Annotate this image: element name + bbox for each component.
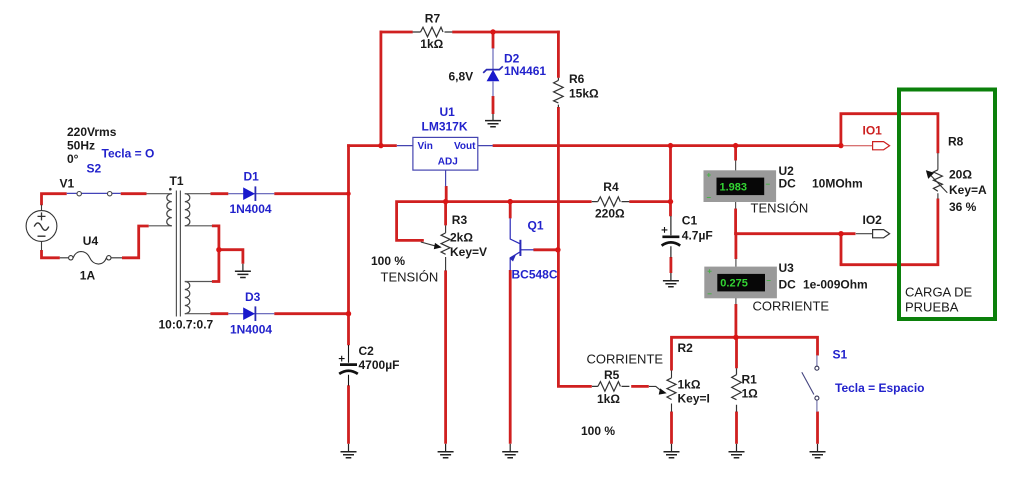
svg-text:BC548C: BC548C [512, 268, 558, 282]
svg-text:100 %: 100 % [581, 424, 615, 438]
voltmeter U2 [704, 160, 777, 209]
wire bottom rail R2 to S1 [672, 337, 818, 370]
svg-text:V1: V1 [60, 177, 75, 191]
node Q1 base / main vertical [555, 247, 560, 252]
label TENSION pot [371, 254, 438, 285]
potentiometer R8 [926, 153, 947, 199]
node Vin rail / R7 [378, 143, 383, 148]
label CARGA DE PRUEBA [905, 285, 973, 315]
wire C1 upper [669, 144, 672, 216]
svg-text:LM317K: LM317K [422, 120, 468, 134]
wire IO1 branch to R8 top [841, 114, 938, 154]
wire D1 to main node [274, 192, 350, 195]
wire IO2 rail [734, 232, 855, 235]
wire D3 input [210, 312, 228, 315]
svg-text:D1: D1 [244, 170, 260, 184]
label S1 [833, 348, 925, 395]
svg-text:1kΩ: 1kΩ [420, 37, 443, 51]
wire top rail right of R7 [452, 31, 560, 34]
label C1 [682, 214, 713, 243]
label U4 [80, 234, 99, 283]
wire T1 center tap [212, 226, 243, 282]
node bottom rail / R1 U3 [733, 335, 738, 340]
label C2 [359, 344, 400, 372]
label R4 [595, 180, 625, 221]
wire V1 top [42, 194, 67, 206]
ground below S1 [810, 444, 826, 458]
wire U3 top stub [735, 232, 738, 259]
green box CARGA DE PRUEBA [899, 90, 995, 320]
svg-text:R8: R8 [948, 135, 964, 149]
wire R6 top [557, 31, 560, 78]
wire D2 cathode stub [492, 96, 495, 114]
node Vout rail / IO1 [838, 143, 843, 148]
wire U2 bottom stub [734, 209, 737, 236]
label D2 [449, 52, 547, 84]
wire R7 left branch [379, 31, 382, 147]
svg-text:T1: T1 [170, 174, 184, 188]
svg-text:CORRIENTE: CORRIENTE [753, 299, 830, 314]
transistor Q1 BC548C [510, 218, 534, 270]
svg-text:CORRIENTE: CORRIENTE [587, 352, 664, 367]
svg-text:1N4461: 1N4461 [504, 64, 546, 78]
node top rail / D2 [490, 29, 495, 34]
label Q1 [512, 219, 558, 282]
diode D3 1N4004 [228, 306, 274, 321]
svg-text:DC: DC [779, 177, 797, 191]
connector IO1 lead [843, 145, 873, 147]
node D3 / main node [346, 311, 351, 316]
svg-text:C2: C2 [359, 344, 375, 358]
wire D3 output [274, 312, 350, 315]
node T1 center tap [216, 247, 221, 252]
wire R3 top [444, 200, 447, 225]
svg-text:DC: DC [779, 278, 797, 292]
wire R8 bottom to IO2 branch [840, 199, 938, 265]
label U2 [751, 164, 863, 216]
wire Q1 base stub [533, 248, 559, 251]
svg-text:R3: R3 [452, 213, 468, 227]
svg-text:1kΩ: 1kΩ [678, 378, 701, 392]
label CORRIENTE pot [581, 352, 663, 439]
svg-text:R2: R2 [678, 341, 694, 355]
wire Q1 collector stub [509, 200, 512, 218]
node ADJ rail / R3 [443, 199, 448, 204]
wire fuse to T1 primary bottom [122, 226, 149, 258]
svg-text:36 %: 36 % [949, 200, 977, 214]
svg-text:U4: U4 [83, 234, 99, 248]
svg-text:1N4004: 1N4004 [230, 202, 272, 216]
potentiometer R3 [421, 225, 450, 270]
svg-text:IO2: IO2 [863, 213, 883, 227]
svg-text:R7: R7 [425, 12, 441, 26]
wire S2 to T1 [121, 192, 147, 195]
ground below Q1 emitter [502, 444, 518, 458]
svg-text:220Ω: 220Ω [595, 207, 625, 221]
label U1 [422, 105, 468, 134]
wire R1 top stub [735, 336, 738, 368]
svg-text:Vout: Vout [454, 141, 476, 152]
svg-text:Key=A: Key=A [949, 183, 987, 197]
wire D2 anode stub [492, 31, 495, 49]
connector IO1 [873, 142, 890, 150]
svg-text:U3: U3 [779, 261, 795, 275]
AC source V1 [26, 205, 57, 251]
svg-text:4.7µF: 4.7µF [682, 229, 713, 243]
node D1 / main node [346, 192, 350, 196]
svg-text:Key=I: Key=I [678, 392, 710, 406]
label R7 [420, 12, 443, 52]
ground at T1 center tap [235, 264, 251, 278]
svg-text:TENSIÓN: TENSIÓN [381, 270, 439, 285]
svg-text:Tecla = Espacio: Tecla = Espacio [835, 381, 925, 395]
svg-text:R5: R5 [604, 368, 620, 382]
wire C1 lower [670, 257, 673, 273]
svg-text:4700µF: 4700µF [359, 358, 400, 372]
wire V1 bottom to fuse [42, 250, 60, 258]
svg-text:Vin: Vin [418, 141, 433, 152]
diode D1 1N4004 [228, 186, 274, 201]
capacitor C1 4.7uF [662, 216, 681, 257]
connector IO2 [856, 230, 890, 238]
wire C2 bottom [347, 385, 350, 444]
ground below R1 [729, 444, 745, 458]
svg-text:S1: S1 [833, 348, 848, 362]
node IO2 rail [838, 231, 843, 236]
ground below C1 [663, 273, 679, 287]
label D3 [230, 290, 272, 337]
label R5 [597, 368, 620, 406]
label R2 [678, 341, 710, 406]
svg-text:1.983: 1.983 [720, 181, 748, 193]
zener diode D2 1N4461 [483, 48, 503, 96]
label R8 [948, 135, 987, 215]
wire T1 secondary top to D1 [211, 192, 229, 195]
svg-text:Key=V: Key=V [450, 245, 487, 259]
ground below R2 [664, 444, 680, 458]
wire ADJ rail [397, 202, 592, 241]
fuse U4 [60, 252, 122, 264]
switch S1 (open) [802, 355, 819, 412]
wire R1 bottom [735, 412, 738, 444]
potentiometer R2 [649, 370, 676, 411]
switch S2 (closed) [67, 192, 121, 196]
svg-text:R1: R1 [742, 373, 758, 387]
svg-text:1kΩ: 1kΩ [597, 392, 620, 406]
svg-text:0.275: 0.275 [720, 278, 748, 290]
svg-text:CARGA DE: CARGA DE [905, 285, 973, 300]
regulator U1 LM317K [397, 137, 493, 186]
svg-text:50Hz: 50Hz [67, 139, 95, 153]
label V1 params [60, 125, 117, 191]
svg-text:20Ω: 20Ω [949, 168, 972, 182]
label S2 [87, 147, 155, 176]
capacitor C2 4700uF [339, 345, 358, 386]
ground below C2 [341, 444, 357, 458]
svg-text:15kΩ: 15kΩ [569, 87, 599, 101]
svg-text:2kΩ: 2kΩ [450, 231, 473, 245]
wire R4 right [629, 200, 672, 203]
svg-text:TENSIÓN: TENSIÓN [751, 201, 809, 216]
resistor R4 [592, 197, 630, 207]
svg-text:1Ω: 1Ω [742, 387, 759, 401]
wire Vout rail [493, 144, 843, 147]
wire main vertical node [347, 144, 350, 345]
label R3 [450, 213, 487, 259]
svg-text:Tecla = O: Tecla = O [102, 147, 155, 161]
label R1 [742, 373, 759, 401]
svg-text:100 %: 100 % [371, 254, 405, 268]
ammeter U3 [704, 259, 777, 304]
resistor R5 [592, 382, 630, 392]
transformer T1 [147, 188, 213, 317]
wire U2 top stub [734, 144, 737, 160]
resistor R1 [732, 368, 742, 411]
svg-text:R6: R6 [569, 72, 585, 86]
svg-text:6,8V: 6,8V [449, 70, 474, 84]
svg-text:1e-009Ohm: 1e-009Ohm [803, 278, 868, 292]
label U3 [753, 261, 868, 314]
node Vout rail / C1 [668, 143, 673, 148]
svg-text:1N4004: 1N4004 [230, 323, 272, 337]
node Vout rail / U2 [733, 143, 738, 148]
svg-text:0°: 0° [67, 152, 79, 166]
wire Q1 emitter to ground [509, 270, 512, 444]
wire R6 bottom long vertical to R5 [558, 107, 591, 386]
svg-text:R4: R4 [603, 180, 619, 194]
svg-text:PRUEBA: PRUEBA [905, 300, 959, 315]
ground below R3 [438, 444, 454, 458]
label D1 [230, 170, 272, 217]
wire U3 bottom stub [735, 304, 738, 339]
wire S1 bottom [816, 412, 819, 444]
svg-text:1A: 1A [80, 269, 96, 283]
label R6 [569, 72, 599, 101]
svg-text:ADJ: ADJ [438, 157, 458, 168]
node ADJ rail / Q1 collector [508, 199, 513, 204]
svg-text:10:0.7:0.7: 10:0.7:0.7 [159, 318, 214, 332]
svg-text:IO1: IO1 [863, 124, 883, 138]
wire Vin rail [347, 144, 397, 147]
wire top rail left of R7 [380, 31, 413, 34]
node R4 / C1 column [668, 199, 673, 204]
label T1 [159, 174, 214, 332]
resistor R7 [413, 27, 453, 37]
svg-text:10MOhm: 10MOhm [812, 177, 863, 191]
svg-text:220Vrms: 220Vrms [67, 125, 117, 139]
svg-text:C1: C1 [682, 214, 698, 228]
svg-text:S2: S2 [87, 162, 102, 176]
wire R2 bottom [670, 412, 673, 444]
resistor R6 [554, 78, 564, 107]
ground below D2 [485, 114, 501, 127]
svg-text:U1: U1 [440, 105, 456, 119]
wire ADJ pin stub [445, 186, 448, 203]
wire R3 bottom to ground [444, 270, 447, 443]
svg-text:D3: D3 [245, 290, 261, 304]
wire IO2 down branch [840, 233, 843, 265]
svg-text:Q1: Q1 [528, 219, 544, 233]
wire R5 right [631, 385, 649, 388]
